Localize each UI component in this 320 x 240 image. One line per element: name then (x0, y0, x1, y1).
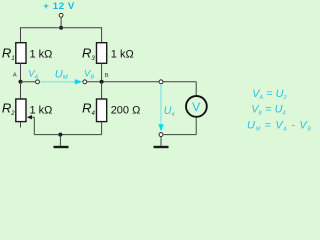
U4 terminal circle top (159, 80, 163, 84)
svg-text:A: A (13, 73, 17, 79)
node A (19, 80, 23, 84)
ground right (160, 137, 162, 146)
wire terminal to top rail (60, 18, 62, 28)
node VB terminal circle (83, 80, 87, 84)
node VA terminal circle (36, 80, 40, 84)
wire bottom rail left (34, 134, 101, 136)
wire VB to node B and onward to voltmeter branch (87, 81, 196, 83)
svg-text:VA = U2: VA = U2 (252, 88, 286, 101)
junction dot top (59, 26, 63, 30)
svg-text:V: V (192, 100, 201, 114)
svg-text:1 kΩ: 1 kΩ (30, 48, 53, 60)
wire bottom rail right (163, 134, 196, 136)
svg-text:1 kΩ: 1 kΩ (111, 48, 134, 60)
node B (100, 80, 104, 84)
wire voltmeter branch top (195, 82, 197, 96)
svg-text:VB = U4: VB = U4 (251, 104, 285, 117)
svg-text:200 Ω: 200 Ω (111, 104, 141, 116)
svg-text:+ 12 V: + 12 V (43, 1, 75, 12)
wire node A to VA terminal (21, 81, 36, 83)
ground left (59, 135, 61, 146)
arrow U4 (160, 84, 162, 124)
resistor R4 (97, 99, 107, 122)
U4 terminal circle bottom (159, 133, 163, 137)
wire node A to R2 (20, 82, 22, 99)
wire top rail to R1 (20, 27, 22, 43)
resistor R1 (16, 43, 26, 64)
junction dot ground left (58, 133, 62, 137)
arrow UM (40, 81, 75, 83)
wire top rail (21, 27, 102, 29)
wire voltmeter branch bottom (195, 117, 197, 135)
R2 wiper wire down (33, 117, 35, 134)
wire node B to R4 (101, 82, 103, 99)
R2 open stub (20, 122, 22, 128)
wire R3 to node B (101, 64, 103, 82)
R2 wiper arrow (27, 115, 32, 119)
svg-text:1 kΩ: 1 kΩ (30, 104, 53, 116)
wire R1 to node A (20, 64, 22, 82)
supply terminal (59, 13, 63, 17)
wire R4 to bottom rail (101, 122, 103, 135)
potentiometer R2 (16, 99, 26, 122)
resistor R3 (97, 43, 107, 64)
wire top rail to R3 (101, 27, 103, 43)
voltmeter V (186, 96, 207, 117)
svg-text:B: B (105, 73, 109, 79)
